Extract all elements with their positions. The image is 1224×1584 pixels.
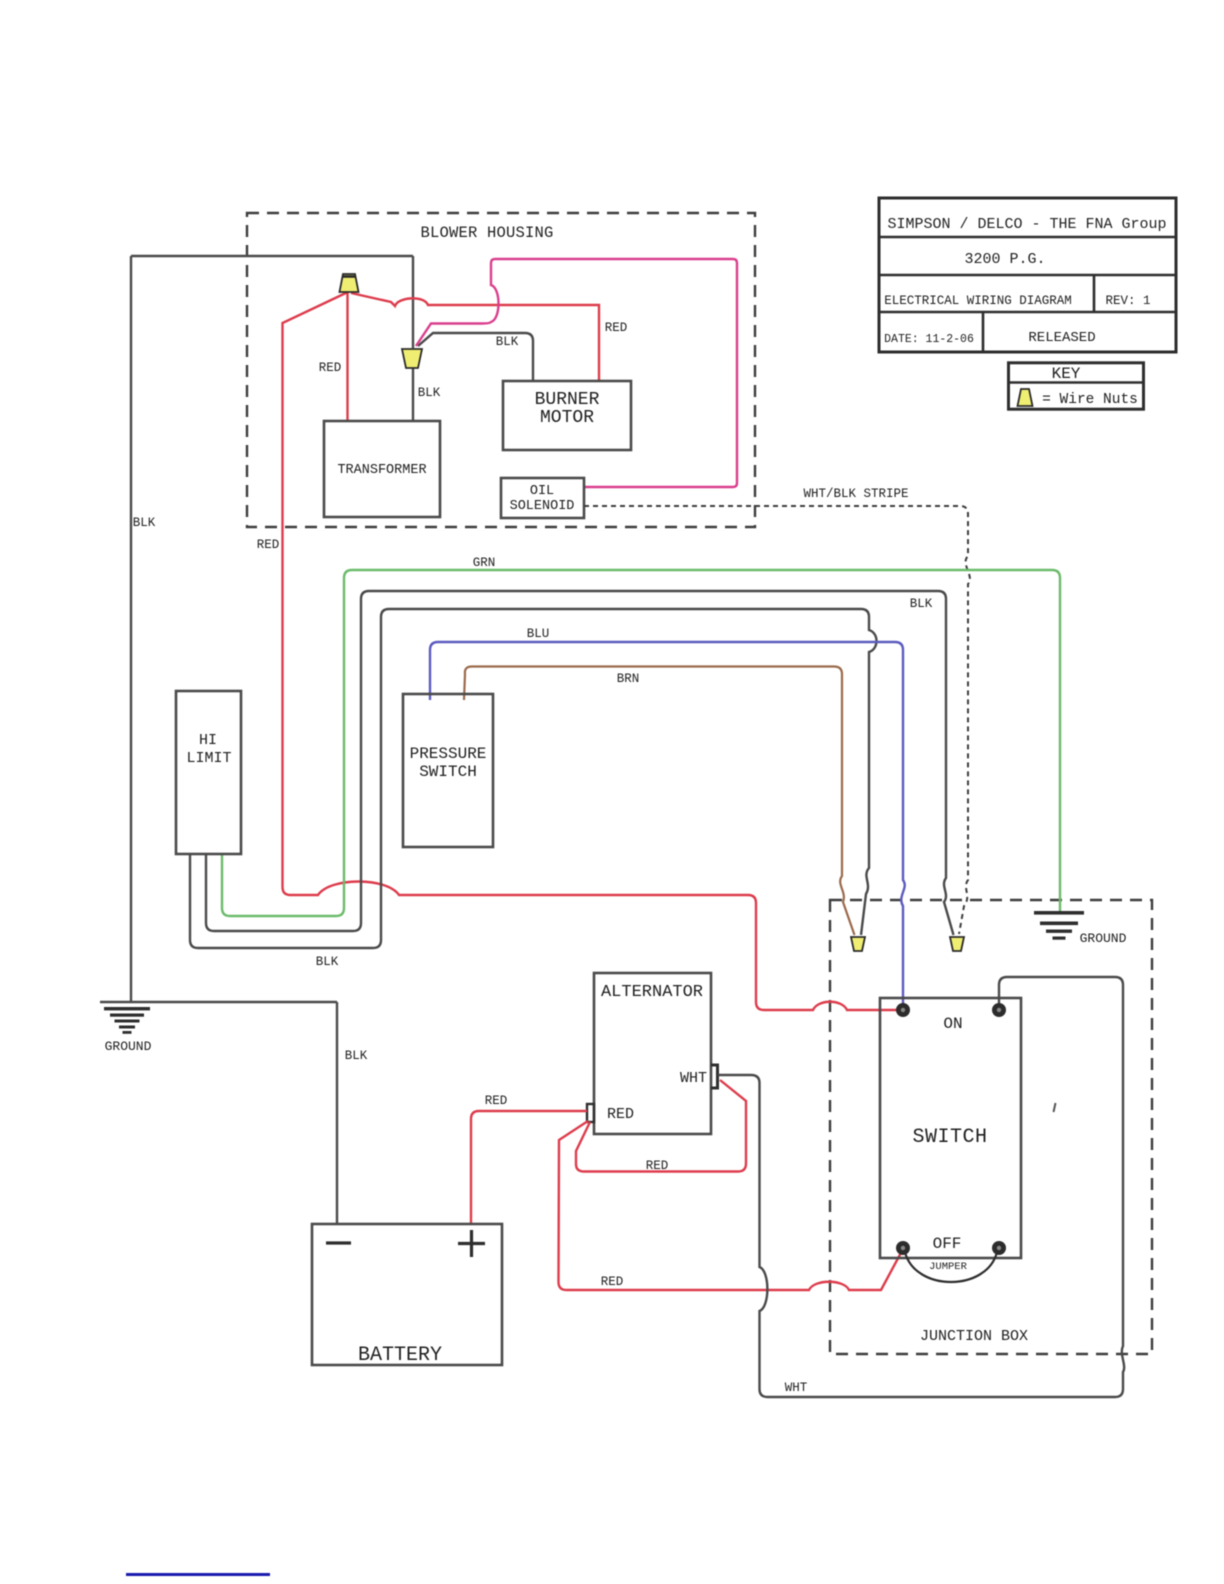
svg-text:RED: RED — [257, 538, 280, 552]
svg-text:DATE: 11-2-06: DATE: 11-2-06 — [884, 333, 974, 346]
svg-text:BRN: BRN — [617, 672, 640, 686]
title block — [879, 198, 1176, 352]
wire RED wire nut 1 to burner motor — [351, 293, 627, 381]
svg-text:BLU: BLU — [527, 627, 550, 641]
wire ground-left horizontal — [100, 1001, 337, 1003]
wire nut 3 — [851, 937, 865, 951]
svg-text:BLK: BLK — [316, 955, 339, 969]
wire BLK hi-limit loop to wire nut 3 — [190, 609, 877, 969]
svg-text:ELECTRICAL WIRING DIAGRAM: ELECTRICAL WIRING DIAGRAM — [884, 294, 1072, 308]
svg-text:BATTERY: BATTERY — [358, 1344, 442, 1367]
key box — [1009, 363, 1144, 409]
svg-text:BLK: BLK — [496, 335, 519, 349]
wire RED long run from wire nut 1 to switch ON — [257, 292, 903, 1010]
alternator — [594, 973, 711, 1134]
wire RED wire nut 1 to transformer — [319, 290, 348, 421]
switch — [880, 998, 1021, 1258]
wire MAGENTA oil solenoid loop to wire nut 2 — [416, 259, 737, 487]
wire BLU — [430, 627, 905, 1010]
wire RED alternator loop to WHT terminal — [576, 1080, 746, 1173]
svg-text:= Wire Nuts: = Wire Nuts — [1042, 392, 1138, 408]
svg-text:HI: HI — [199, 732, 217, 749]
wire nut 4 — [950, 937, 964, 951]
ground symbol left — [104, 1007, 152, 1054]
wire nut 1 — [340, 274, 359, 292]
svg-text:SWITCH: SWITCH — [419, 763, 477, 781]
wire BLK hi-limit loop to wire nut 4 — [206, 591, 954, 935]
svg-text:OIL: OIL — [530, 484, 554, 499]
wire BLK top horizontal — [131, 255, 413, 257]
wire WHT/BLK STRIPE dashed — [584, 487, 970, 934]
svg-text:BURNER: BURNER — [535, 390, 600, 410]
hi limit — [176, 691, 241, 854]
pressure switch — [403, 694, 493, 847]
switch terminal OFF-left — [896, 1241, 910, 1255]
svg-text:RED: RED — [605, 321, 628, 335]
svg-text:PRESSURE: PRESSURE — [410, 745, 487, 763]
wire BLK wire nut 2 to transformer — [413, 368, 441, 421]
stray tick mark — [1054, 1103, 1056, 1112]
svg-text:WHT: WHT — [680, 1070, 707, 1087]
svg-text:GROUND: GROUND — [105, 1039, 152, 1054]
wire RED alternator to switch OFF — [559, 1121, 904, 1290]
wire RED battery positive to alternator — [471, 1094, 587, 1224]
jumper wire — [905, 1252, 997, 1282]
junction box enclosure — [830, 900, 1152, 1354]
oil solenoid — [501, 478, 584, 518]
wire nut 2 — [402, 349, 422, 368]
wire BLK left vertical — [131, 256, 156, 1002]
svg-text:OFF: OFF — [933, 1235, 962, 1253]
svg-text:BLK: BLK — [345, 1049, 368, 1063]
svg-text:WHT: WHT — [785, 1381, 808, 1395]
alternator terminal WHT — [711, 1065, 718, 1088]
svg-text:SOLENOID: SOLENOID — [510, 499, 575, 514]
blower housing enclosure — [247, 213, 755, 527]
svg-text:KEY: KEY — [1052, 365, 1081, 383]
footer mark — [126, 1573, 270, 1576]
svg-text:RED: RED — [601, 1275, 624, 1289]
svg-text:TRANSFORMER: TRANSFORMER — [337, 463, 426, 478]
svg-text:ON: ON — [943, 1015, 962, 1033]
svg-text:BLK: BLK — [133, 516, 156, 530]
svg-text:RED: RED — [646, 1159, 669, 1173]
svg-text:SWITCH: SWITCH — [912, 1126, 987, 1149]
svg-text:BLK: BLK — [910, 597, 933, 611]
switch terminal ON-left — [896, 1003, 910, 1017]
switch terminal OFF-right — [992, 1241, 1006, 1255]
wire BLK wire nut 2 to burner motor — [418, 333, 533, 381]
burner motor — [503, 381, 631, 450]
svg-text:RED: RED — [485, 1094, 508, 1108]
ground symbol right — [1034, 911, 1127, 946]
svg-text:GROUND: GROUND — [1080, 931, 1127, 946]
wire nut key symbol — [1018, 389, 1033, 406]
wire BLK battery negative — [337, 1002, 368, 1224]
transformer — [324, 421, 440, 517]
svg-text:JUMPER: JUMPER — [929, 1261, 968, 1273]
wire GRN — [222, 556, 1060, 916]
svg-text:JUNCTION BOX: JUNCTION BOX — [920, 1328, 1028, 1345]
wire WHT alternator to switch — [718, 977, 1124, 1397]
svg-text:BLK: BLK — [418, 386, 441, 400]
svg-text:MOTOR: MOTOR — [540, 408, 594, 428]
svg-text:RED: RED — [607, 1106, 634, 1123]
wire BLK into wire nut 2 — [412, 256, 414, 348]
svg-text:ALTERNATOR: ALTERNATOR — [601, 983, 703, 1002]
svg-text:RED: RED — [319, 361, 342, 375]
switch terminal ON-right — [992, 1003, 1006, 1017]
svg-text:3200 P.G.: 3200 P.G. — [964, 251, 1045, 268]
svg-text:RELEASED: RELEASED — [1028, 330, 1095, 346]
battery — [312, 1224, 502, 1367]
alternator terminal RED — [587, 1104, 594, 1122]
svg-text:BLOWER HOUSING: BLOWER HOUSING — [420, 224, 553, 242]
svg-text:REV: 1: REV: 1 — [1105, 294, 1150, 308]
svg-text:WHT/BLK STRIPE: WHT/BLK STRIPE — [803, 487, 908, 501]
svg-text:LIMIT: LIMIT — [186, 750, 231, 767]
wire BRN — [464, 667, 855, 936]
svg-text:SIMPSON / DELCO - THE FNA Grou: SIMPSON / DELCO - THE FNA Group — [887, 216, 1166, 233]
svg-text:GRN: GRN — [473, 556, 496, 570]
